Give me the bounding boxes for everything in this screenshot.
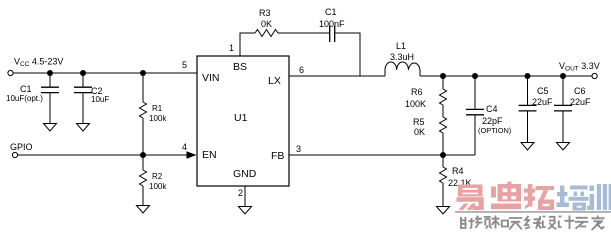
label C1 10uF(opt.) — [6, 84, 43, 103]
label L1 3.3uH — [390, 41, 414, 62]
terminal Vcc — [8, 70, 13, 75]
svg-text:100K: 100K — [405, 99, 426, 109]
svg-text:GPIO: GPIO — [10, 142, 33, 152]
wire bootstrap mid — [278, 32, 329, 34]
watermark logo — [455, 182, 611, 230]
svg-text:R2: R2 — [152, 172, 163, 181]
svg-text:LX: LX — [268, 75, 281, 87]
terminal GPIO — [12, 152, 17, 157]
label R5 0K — [413, 117, 425, 137]
wire Vcc rail — [13, 72, 197, 74]
svg-text:R3: R3 — [259, 8, 271, 18]
svg-text:FB: FB — [271, 150, 284, 162]
resistor R3 — [255, 30, 278, 37]
label R6 100K — [405, 87, 426, 109]
svg-text:3: 3 — [296, 144, 301, 154]
junction FB/R4 — [440, 152, 446, 158]
svg-text:5: 5 — [182, 60, 187, 70]
wire bootstrap right — [335, 33, 360, 76]
svg-text:C4: C4 — [486, 104, 498, 114]
watermark subtitle — [460, 216, 605, 230]
ground U1 — [239, 207, 252, 215]
svg-text:10uF(opt.): 10uF(opt.) — [6, 94, 43, 103]
label R2 100k — [149, 172, 167, 191]
svg-text:C5: C5 — [537, 86, 549, 96]
junction C4 top — [472, 73, 478, 79]
svg-text:R6: R6 — [411, 87, 423, 97]
wire GND pin2 — [244, 186, 246, 206]
resistor R1 — [140, 73, 147, 155]
ground C6 — [557, 143, 570, 151]
label R4 22.1K — [448, 166, 472, 188]
wire FB rail — [289, 154, 475, 156]
junction C6 top — [560, 73, 566, 79]
svg-text:100k: 100k — [149, 114, 167, 123]
svg-text:4: 4 — [182, 142, 187, 152]
svg-text:22pF: 22pF — [482, 116, 503, 126]
svg-text:VIN: VIN — [202, 72, 220, 84]
svg-text:22uF: 22uF — [570, 97, 591, 107]
svg-text:0K: 0K — [414, 127, 425, 137]
svg-text:GND: GND — [233, 168, 257, 180]
junction R1 top — [140, 70, 146, 76]
label C5 22uF — [532, 86, 553, 107]
svg-text:C1: C1 — [325, 7, 337, 17]
label C6 22uF — [570, 86, 591, 107]
svg-text:22uF: 22uF — [532, 97, 553, 107]
svg-text:2: 2 — [238, 188, 243, 198]
svg-text:1: 1 — [229, 43, 234, 53]
svg-text:C6: C6 — [574, 86, 586, 96]
IC U1 — [197, 56, 289, 186]
terminal VOUT — [592, 73, 597, 78]
resistor R2 — [140, 155, 147, 205]
watermark rule — [455, 211, 611, 213]
resistor R4 — [440, 155, 447, 206]
resistor R6 — [440, 76, 447, 117]
capacitor C6 — [554, 76, 572, 142]
ground C5 — [521, 143, 534, 151]
svg-text:(OPTION): (OPTION) — [478, 126, 511, 135]
svg-text:EN: EN — [202, 149, 217, 161]
svg-text:BS: BS — [233, 61, 247, 73]
svg-text:L1: L1 — [396, 41, 406, 51]
svg-text:R5: R5 — [413, 117, 425, 127]
inductor L1 — [385, 62, 420, 76]
wire BS pin1 — [239, 33, 241, 56]
svg-text:C1: C1 — [20, 84, 32, 94]
junction C2 top — [80, 70, 86, 76]
svg-text:R1: R1 — [152, 104, 163, 113]
svg-text:0K: 0K — [261, 19, 272, 29]
pin arrow EN — [187, 151, 197, 158]
junction C5 top — [525, 73, 531, 79]
svg-text:U1: U1 — [234, 112, 248, 124]
capacitor C5 — [519, 76, 537, 142]
label R1 100k — [149, 104, 167, 123]
resistor R5 — [440, 117, 447, 155]
ground C1 — [44, 124, 57, 132]
wire LX rail — [289, 75, 385, 77]
capacitor C1 bootstrap — [330, 26, 335, 43]
label C4 22pF (OPTION) — [478, 104, 511, 135]
svg-text:3.3uH: 3.3uH — [390, 52, 414, 62]
wire output rail — [420, 75, 592, 77]
wire GPIO rail — [18, 154, 189, 156]
wire bootstrap top rail left — [240, 32, 256, 34]
capacitor C4 — [466, 76, 484, 155]
svg-text:R4: R4 — [452, 166, 464, 176]
junction C1 top — [47, 70, 53, 76]
capacitor C1 input — [41, 73, 59, 123]
label C1 100nF — [319, 7, 345, 29]
svg-text:100k: 100k — [149, 182, 167, 191]
ground R2 — [137, 206, 150, 214]
svg-text:6: 6 — [299, 65, 304, 75]
svg-text:100nF: 100nF — [319, 19, 345, 29]
capacitor C2 — [74, 73, 92, 123]
label C2 10uF — [91, 86, 109, 104]
label R3 0K — [259, 8, 272, 29]
ground R4 — [437, 207, 450, 215]
svg-text:10uF: 10uF — [91, 95, 109, 104]
ground C2 — [77, 124, 90, 132]
junction R6 top — [440, 73, 446, 79]
junction R1/R2 — [140, 152, 146, 158]
